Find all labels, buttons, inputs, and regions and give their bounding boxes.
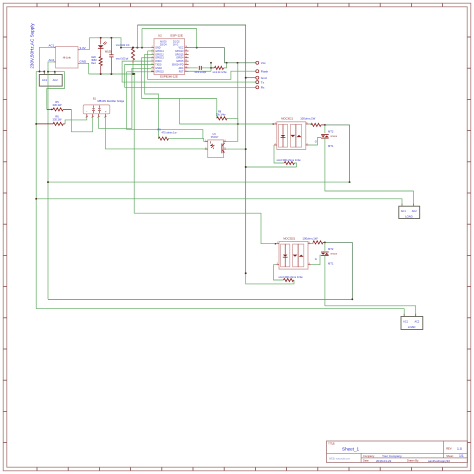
pin label AC2 (U1)	[49, 58, 55, 62]
wire GND down	[78, 63, 89, 74]
pin label AC1 (U1)	[49, 44, 55, 48]
wire GND2 to MOC2 drive	[134, 74, 276, 244]
svg-text:GPIO13: GPIO13	[155, 58, 164, 60]
wire feed line MOC1	[179, 123, 274, 125]
resistor R8 10k 1/4w	[216, 111, 238, 124]
svg-text:AC1: AC1	[403, 321, 408, 324]
resistor R6 330 2W	[35, 115, 65, 126]
svg-text:G: G	[315, 140, 317, 144]
wire opto collector to Vcc	[226, 63, 238, 142]
wire MT1 ch2 to LOAD2	[325, 256, 416, 317]
svg-text:GPIO15: GPIO15	[175, 54, 184, 56]
svg-text:10k 1/4w: 10k 1/4w	[216, 114, 226, 117]
pin label GND (U1)	[80, 60, 88, 64]
svg-text:100ohm,1W: 100ohm,1W	[300, 117, 315, 121]
svg-text:RST: RST	[179, 71, 184, 73]
svg-text:VCC: VCC	[178, 48, 183, 50]
wire R6 to bridge pin1	[65, 117, 87, 124]
svg-text:Flash: Flash	[261, 69, 269, 73]
svg-text:GPIO13: GPIO13	[175, 51, 184, 53]
wire opto emitter to gnd	[226, 148, 246, 150]
svg-text:14: 14	[185, 53, 187, 55]
svg-text:11: 11	[185, 63, 187, 65]
wire ch2 330R to gnd	[245, 272, 294, 284]
wire top loop outer to gnd bus	[137, 25, 245, 273]
pin label 3.3V (U1)	[80, 46, 86, 50]
svg-text:ESP8266-12E: ESP8266-12E	[160, 74, 178, 78]
svg-text:Sheet_1: Sheet_1	[342, 447, 360, 452]
svg-text:Hi-Link: Hi-Link	[63, 56, 72, 60]
svg-text:RXD0: RXD0	[155, 61, 162, 63]
resistor R-10k smd	[116, 44, 135, 75]
wire bottom rail	[89, 73, 136, 75]
svg-text:GPIO4: GPIO4	[176, 58, 184, 60]
svg-text:AC2: AC2	[414, 321, 419, 324]
wire GPIO to R9 feed	[145, 54, 159, 138]
svg-text:15: 15	[185, 50, 187, 52]
connector LOAD2	[401, 314, 423, 330]
resistor 100ohm 1W (ch2)	[311, 241, 326, 244]
wire bridge pin3 to ESP gnd row	[99, 68, 152, 128]
svg-text:santhoshappy92: santhoshappy92	[428, 459, 450, 463]
wire AC2 wrap to R5	[47, 72, 65, 110]
svg-text:WEB: easyeda.com: WEB: easyeda.com	[329, 458, 350, 461]
svg-text:MT2: MT2	[328, 130, 334, 134]
svg-text:Tx: Tx	[261, 80, 265, 84]
optotriac U5 MOC3021 (ch2)	[276, 236, 318, 269]
svg-text:3: 3	[224, 148, 225, 150]
svg-text:MT2: MT2	[328, 247, 334, 251]
svg-text:GPIO5: GPIO5	[176, 61, 184, 63]
svg-text:ESP-12E: ESP-12E	[171, 34, 183, 38]
wire AC bus to MT2 ch2	[48, 298, 352, 300]
svg-text:Red: Red	[91, 62, 96, 65]
wire ESP VCC to Vcc header	[189, 48, 256, 64]
svg-text:U2: U2	[158, 34, 162, 38]
svg-text:2019-01-22: 2019-01-22	[376, 459, 392, 463]
svg-text:BTA16: BTA16	[331, 253, 338, 256]
svg-text:AC2: AC2	[53, 78, 59, 82]
wire R5 to bridge pin2	[51, 109, 93, 132]
svg-text:4: 4	[224, 140, 225, 142]
resistor R smd 1k	[210, 63, 227, 74]
resistor smd 330 (ch1)	[274, 145, 301, 167]
wire TXD to Tx	[122, 61, 256, 82]
wire gate1	[309, 138, 322, 146]
svg-text:AC1: AC1	[42, 78, 48, 82]
svg-text:TITLE:: TITLE:	[328, 444, 335, 446]
svg-text:A0 D0: A0 D0	[160, 41, 167, 44]
wire MT2 ch2 to AC	[325, 242, 353, 300]
svg-text:smd 1k 1/4w: smd 1k 1/4w	[213, 71, 227, 74]
svg-text:G: G	[315, 257, 317, 261]
svg-text:7: 7	[152, 66, 153, 68]
wire GPIO to R8	[142, 58, 217, 124]
svg-text:PC817: PC817	[211, 136, 219, 139]
wire ch1 330R to gnd	[245, 166, 297, 168]
wire RXD to Rx	[125, 65, 256, 88]
svg-text:12: 12	[185, 60, 187, 62]
svg-text:smd 10k 1/4: smd 10k 1/4	[116, 44, 130, 47]
svg-text:GND2: GND2	[155, 68, 162, 70]
optocoupler U3 PC817	[205, 133, 226, 158]
capacitor C1 smd 100pf	[109, 38, 113, 74]
triac Q1 BTA16 (ch1)	[315, 125, 338, 148]
svg-text:13: 13	[185, 56, 187, 58]
wire GPIO15 branch	[127, 72, 203, 139]
resistor smd 330 (ch2)	[274, 265, 303, 282]
svg-text:BTA16: BTA16	[331, 135, 338, 138]
svg-text:REV:: REV:	[446, 447, 452, 451]
svg-text:LOAD: LOAD	[405, 214, 413, 218]
wire neutral to LOAD1 AC1	[35, 198, 402, 204]
wire MT2 ch1 to AC	[325, 125, 351, 183]
svg-text:GPIO14: GPIO14	[155, 51, 164, 53]
IC U2 ESP8266-12E	[151, 34, 189, 79]
wire top rail 3.3V	[89, 37, 121, 48]
LED D1 WLED	[98, 38, 113, 57]
connector P1 pin stubs	[44, 72, 55, 75]
svg-text:Date:: Date:	[363, 459, 369, 463]
svg-text:1: 1	[205, 140, 206, 142]
connector LOAD1	[399, 204, 420, 219]
resistor R5 330 2W	[47, 100, 72, 111]
wire MT1 ch1 to LOAD1	[325, 138, 414, 203]
svg-text:GPIO15: GPIO15	[155, 71, 164, 73]
svg-text:Sheet:: Sheet:	[446, 454, 454, 458]
wire 3.3V rail up	[78, 38, 89, 50]
bridge rectifier B1 MB10S	[83, 98, 125, 118]
svg-text:9: 9	[185, 70, 186, 72]
triac Q2 BTA16 (ch2)	[315, 242, 338, 265]
svg-text:LOAD: LOAD	[408, 325, 416, 329]
connector P1 (AC input)	[39, 75, 62, 87]
svg-text:100ohm,1W: 100ohm,1W	[302, 236, 317, 240]
svg-text:Drawn By:: Drawn By:	[407, 459, 419, 463]
wire gate2	[311, 255, 321, 265]
svg-text:1: 1	[152, 46, 153, 48]
resistor R9 470 ohms 1w	[158, 128, 208, 141]
title block	[327, 441, 468, 463]
resistor 100ohm 1W (ch1)	[309, 123, 326, 126]
svg-text:470 ohms 1w: 470 ohms 1w	[162, 131, 177, 134]
label smd 100 pf	[116, 58, 129, 61]
power module U1 Hi-Link HLK-PM03	[54, 47, 80, 69]
svg-text:Gnd: Gnd	[261, 76, 267, 80]
svg-text:2: 2	[205, 148, 206, 150]
wire AC live vertical V1	[35, 72, 37, 309]
wire top loop inner	[142, 29, 197, 48]
svg-text:330 2W: 330 2W	[53, 118, 62, 122]
wire bridge pin4 to opto cathode	[105, 117, 207, 149]
svg-text:1.0: 1.0	[457, 447, 462, 451]
header pins Vcc Flash Gnd Tx Rx	[256, 61, 269, 90]
svg-text:AC1: AC1	[401, 210, 406, 213]
svg-text:MB10S Rectifier bridge: MB10S Rectifier bridge	[98, 99, 125, 103]
svg-text:10: 10	[185, 66, 187, 68]
svg-text:3.3V: 3.3V	[80, 46, 86, 50]
svg-text:MT1: MT1	[328, 144, 334, 148]
svg-text:230V,50Hz,AC Supply: 230V,50Hz,AC Supply	[30, 23, 35, 69]
label 230V 50Hz AC supply	[30, 23, 35, 69]
wire VCC rail to ESP pin1	[120, 47, 198, 49]
svg-text:Your Company: Your Company	[382, 454, 402, 458]
svg-text:MOC3021: MOC3021	[281, 117, 293, 121]
svg-text:3V G: 3V G	[173, 44, 178, 46]
wire RST stub	[189, 63, 211, 71]
svg-text:ADC: ADC	[178, 67, 183, 70]
svg-text:AC2: AC2	[412, 210, 417, 213]
svg-text:330 2W: 330 2W	[53, 103, 62, 107]
svg-text:smd 330 ohms 1/4w: smd 330 ohms 1/4w	[279, 275, 303, 279]
resistor R-LED	[99, 57, 102, 74]
svg-text:EN/CH-PD: EN/CH-PD	[172, 65, 184, 67]
svg-text:-: -	[86, 109, 87, 113]
wire Gnd stub	[245, 77, 256, 79]
svg-text:MT1: MT1	[328, 262, 334, 266]
wire GPIO0 to Flash	[148, 51, 256, 79]
svg-text:16: 16	[185, 46, 187, 48]
svg-text:GPIO12: GPIO12	[155, 54, 164, 56]
svg-text:MOC3021: MOC3021	[283, 236, 295, 240]
label LED value	[91, 56, 96, 65]
svg-text:Company:: Company:	[363, 454, 375, 458]
wire AC bus to MT2 ch1	[47, 181, 349, 183]
svg-text:smd 100 pf: smd 100 pf	[116, 58, 129, 61]
svg-text:1/1: 1/1	[459, 454, 464, 458]
optotriac U4 MOC3021 (ch1)	[274, 117, 316, 150]
capacitor C2 smd 104pf	[189, 66, 211, 74]
svg-text:GND: GND	[155, 48, 160, 50]
wire neutral to LOAD2 AC1	[36, 309, 404, 317]
svg-text:D1 D2: D1 D2	[173, 42, 180, 44]
svg-text:Rx: Rx	[261, 86, 265, 90]
svg-text:Vcc: Vcc	[261, 61, 267, 65]
svg-text:TXD0: TXD0	[155, 65, 162, 67]
wire AC2 to connector	[47, 62, 56, 73]
svg-text:+: +	[105, 109, 107, 113]
svg-text:D3 D4: D3 D4	[160, 44, 167, 46]
wire AC neutral vertical V2	[47, 72, 49, 300]
wire AC1 to connector	[36, 47, 54, 72]
